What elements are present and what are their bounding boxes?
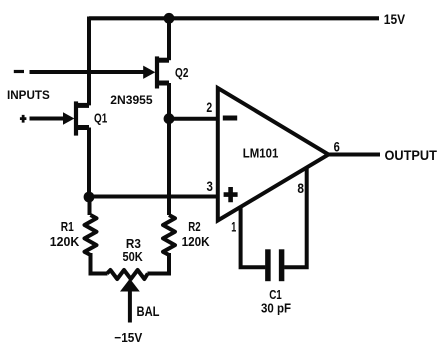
wire: capacitor to pin 8 xyxy=(284,168,307,267)
label: minus input terminal xyxy=(14,70,24,73)
wire: R1 bottom to pot left end xyxy=(91,253,108,274)
Q2 drain lead xyxy=(156,58,170,63)
wire: inverting input to Q2 gate xyxy=(30,70,145,74)
op-amp inverting input marker xyxy=(223,116,237,121)
wire: pin-3 node to op-amp non-inverting input xyxy=(89,195,218,199)
svg-text:2N3955: 2N3955 xyxy=(110,93,153,107)
wire: pin-3 node down to R1 xyxy=(88,197,92,215)
wire: pin-2 node down to R2 xyxy=(167,119,171,215)
Q1 channel bar xyxy=(74,101,78,135)
resistor R3 50K (potentiometer body) xyxy=(107,270,148,279)
Q2 gate arrow xyxy=(143,66,155,79)
wire: op-amp output xyxy=(329,153,381,157)
label: plus input terminal xyxy=(20,115,27,123)
svg-text:Q2: Q2 xyxy=(175,65,188,80)
svg-text:15V: 15V xyxy=(384,12,405,27)
wire: +15V supply rail xyxy=(89,16,379,20)
svg-text:INPUTS: INPUTS xyxy=(7,88,50,102)
junction: pin-2 node xyxy=(164,113,175,124)
svg-text:1: 1 xyxy=(231,219,236,234)
wire: pot right end to R2 bottom xyxy=(147,253,169,274)
svg-text:30 pF: 30 pF xyxy=(261,301,291,316)
svg-text:8: 8 xyxy=(297,181,304,196)
wire: wiper to -15V xyxy=(128,290,132,323)
svg-text:6: 6 xyxy=(334,140,341,155)
svg-text:LM101: LM101 xyxy=(243,146,278,161)
wire: Q2 source down to pin-2 node xyxy=(167,83,171,119)
op-amp U1 LM101 (triangle) xyxy=(218,88,329,221)
svg-text:2: 2 xyxy=(206,100,212,115)
svg-text:Q1: Q1 xyxy=(94,111,107,126)
svg-text:R1: R1 xyxy=(61,219,74,234)
wire: pin-2 node to op-amp inverting input xyxy=(169,117,218,121)
wire: Q1 source down to pin-3 node xyxy=(87,128,91,198)
svg-text:BAL: BAL xyxy=(137,304,160,319)
transistor Q1 (JFET, 1/2 2N3955) xyxy=(63,101,89,135)
junction: Q2 drain on +15V rail xyxy=(164,13,175,24)
wire: non-inverting input to Q1 gate xyxy=(30,117,65,121)
Q1 source lead xyxy=(75,125,90,130)
Q1 drain lead xyxy=(75,103,90,108)
Q2 channel bar xyxy=(155,56,159,88)
svg-text:3: 3 xyxy=(207,179,214,194)
capacitor C1 left plate xyxy=(265,249,271,281)
Q2 source lead xyxy=(156,81,170,86)
pot wiper arrow xyxy=(120,279,140,292)
svg-text:50K: 50K xyxy=(123,249,144,264)
svg-text:120K: 120K xyxy=(182,234,211,249)
wire: Q2 drain to +15V rail xyxy=(167,17,171,61)
svg-text:−15V: −15V xyxy=(114,330,142,345)
transistor Q2 (JFET, 1/2 2N3955) xyxy=(143,56,169,88)
resistor R1 120K xyxy=(85,215,97,255)
junction: pin-3 node xyxy=(84,192,95,203)
Q1 gate arrow xyxy=(63,112,74,124)
svg-text:OUTPUT: OUTPUT xyxy=(385,148,438,163)
wire: Q1 drain to +15V rail (left vertical) xyxy=(87,17,91,106)
svg-text:R2: R2 xyxy=(188,219,200,234)
wire: pin 1 down to compensation capacitor xyxy=(241,206,266,267)
resistor R2 120K xyxy=(163,215,175,255)
capacitor C1 right plate xyxy=(279,249,285,281)
svg-text:120K: 120K xyxy=(50,234,80,249)
op-amp non-inverting input marker xyxy=(224,187,238,202)
